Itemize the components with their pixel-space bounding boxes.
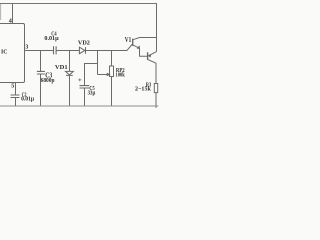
capacitor C5: [80, 86, 90, 88]
wire RP2 top: [111, 51, 113, 67]
wire bottom ground rail: [0, 105, 158, 107]
transistor V1 base bar: [132, 39, 134, 46]
transistor V2 emitter: [149, 52, 157, 56]
plus sign of C5: [78, 78, 81, 81]
wire R3 to ground rail: [155, 93, 157, 108]
op-amp IC box: [0, 24, 25, 83]
svg-text:V1: V1: [125, 37, 132, 44]
transistor V1 collector: [133, 38, 157, 40]
svg-text:VD1: VD1: [55, 64, 68, 71]
wire C5 branch: [85, 64, 98, 86]
wire C4 to VD2: [56, 50, 79, 52]
transistor V2 collector: [148, 60, 156, 84]
capacitor C3: [37, 71, 45, 74]
svg-text:0.01μ: 0.01μ: [21, 96, 34, 103]
svg-text:VD2: VD2: [78, 40, 91, 47]
wire RP2 to ground rail: [111, 77, 113, 107]
svg-text:3: 3: [25, 44, 28, 51]
wire RP2 wiper arrow: [98, 74, 108, 76]
wire VD1 branch: [69, 51, 71, 72]
svg-text:4: 4: [9, 17, 12, 24]
svg-text:100k: 100k: [116, 72, 125, 79]
wire right supply rail: [156, 4, 158, 52]
wire left edge stub: [0, 4, 2, 21]
svg-text:33μ: 33μ: [88, 90, 96, 97]
wire pin 3 to C4: [25, 50, 54, 52]
potentiometer RP2: [110, 66, 114, 77]
capacitor C4: [54, 46, 57, 54]
svg-text:IC: IC: [1, 49, 8, 56]
resistor R3: [154, 84, 157, 93]
diode VD2: [79, 47, 85, 54]
wire top supply rail: [0, 3, 157, 5]
wire pin 4: [12, 4, 14, 24]
wire C2 to ground rail: [15, 98, 17, 107]
svg-text:6800p: 6800p: [41, 77, 55, 84]
wire VD1 to ground rail: [69, 75, 71, 106]
svg-text:0.01μ: 0.01μ: [44, 35, 58, 42]
wire C3 branch: [40, 51, 42, 72]
wire C5 to ground rail: [84, 88, 86, 106]
wire VD2 to V1 base: [86, 44, 133, 51]
svg-text:2−15k: 2−15k: [135, 86, 151, 93]
wire V1 emitter to V2 base: [140, 48, 148, 56]
wire C3 to ground rail: [40, 74, 42, 106]
capacitor C2: [11, 95, 20, 98]
transistor V2 base bar: [147, 52, 149, 60]
wire pin 5: [15, 83, 17, 96]
transistor V1 emitter: [133, 45, 140, 48]
diode VD1: [66, 71, 74, 75]
svg-text:5: 5: [11, 83, 14, 90]
wire junction branch down: [97, 51, 99, 75]
